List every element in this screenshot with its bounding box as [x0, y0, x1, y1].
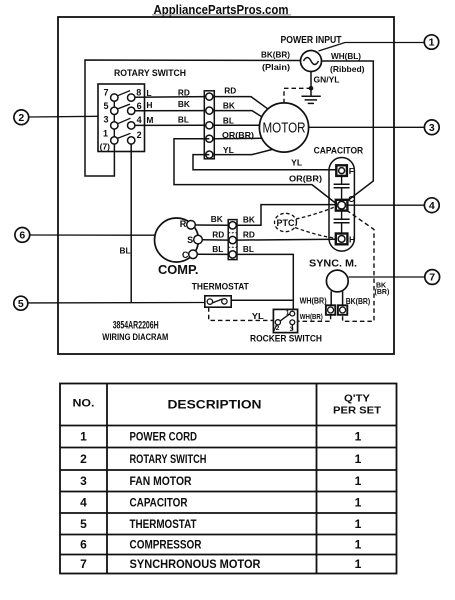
svg-text:POWER CORD: POWER CORD: [130, 430, 198, 444]
lever contacts: [116, 91, 131, 139]
callout 2 leader: [29, 115, 98, 118]
callout circle 6: [15, 228, 30, 243]
svg-text:ROTARY SWITCH: ROTARY SWITCH: [114, 68, 186, 79]
svg-text:CAPACITOR: CAPACITOR: [130, 495, 188, 509]
wire: WH(BL) from power source down right edge: [322, 61, 374, 204]
svg-text:BK(BR): BK(BR): [346, 297, 371, 306]
svg-text:1: 1: [286, 309, 290, 316]
svg-text:WIRING DIACRAM: WIRING DIACRAM: [102, 332, 168, 342]
callout 5 leader (wire to thermostat): [27, 302, 204, 304]
motor terminal strip: [204, 91, 214, 159]
svg-text:NO.: NO.: [73, 398, 95, 410]
wire row L/RD: [135, 96, 204, 99]
svg-text:POWER INPUT: POWER INPUT: [281, 35, 342, 46]
svg-text:SYNCHRONOUS MOTOR: SYNCHRONOUS MOTOR: [130, 557, 261, 571]
table header Q'TY PER SET: [333, 392, 382, 416]
svg-text:PTC: PTC: [277, 218, 296, 228]
svg-text:4: 4: [80, 495, 87, 509]
svg-text:6: 6: [19, 230, 25, 242]
rotary switch S1: [98, 84, 145, 152]
synchronous motor: [326, 270, 348, 315]
svg-text:BK(BR): BK(BR): [261, 50, 290, 60]
wire BK block to capacitor C: [237, 205, 336, 226]
svg-text:4: 4: [429, 200, 435, 212]
terminal R: [187, 221, 196, 230]
PTC thermistor (dashed): [275, 213, 297, 231]
svg-text:6: 6: [80, 538, 87, 552]
svg-text:1: 1: [355, 538, 362, 552]
sync terminal BK(BR): [338, 305, 347, 315]
svg-text:RD: RD: [243, 229, 255, 239]
svg-text:DESCRIPTION: DESCRIPTION: [168, 397, 262, 411]
svg-text:RD: RD: [224, 85, 236, 95]
wire thermostat to rocker junction: [231, 299, 293, 301]
svg-text:FAN MOTOR: FAN MOTOR: [130, 474, 192, 488]
svg-text:3854AR2206H: 3854AR2206H: [113, 319, 159, 331]
svg-text:C: C: [348, 194, 354, 204]
svg-text:YL: YL: [252, 312, 264, 321]
svg-text:H: H: [146, 100, 152, 110]
svg-text:1: 1: [429, 37, 435, 49]
terminal H: [336, 234, 348, 245]
svg-text:PER SET: PER SET: [333, 405, 382, 417]
svg-text:COMPRESSOR: COMPRESSOR: [130, 538, 202, 552]
svg-text:3: 3: [80, 474, 87, 488]
svg-text:OR(BR): OR(BR): [289, 173, 322, 183]
svg-text:YL: YL: [291, 157, 302, 167]
svg-text:GN/YL: GN/YL: [314, 75, 340, 85]
svg-text:ROTARY SWITCH: ROTARY SWITCH: [130, 452, 207, 466]
callout 1 leader: [319, 43, 425, 52]
dashed wire YL thermostat to rocker: [209, 307, 274, 320]
callout circle 7: [425, 270, 440, 285]
throw pins right column: [128, 94, 135, 144]
wire OR(BR) strip to motor: [214, 137, 262, 139]
svg-text:2: 2: [276, 325, 280, 332]
svg-text:MOTOR: MOTOR: [263, 121, 306, 137]
svg-text:2: 2: [18, 112, 24, 124]
wire RD block to capacitor H: [237, 238, 336, 241]
svg-text:BK: BK: [243, 215, 256, 225]
terminal S: [194, 235, 203, 244]
callout 6 leader: [30, 234, 156, 236]
wire BK strip to motor: [214, 111, 261, 117]
svg-text:1: 1: [355, 474, 362, 488]
thermostat switch: [205, 296, 231, 307]
terminal C: [189, 250, 198, 259]
wire YL strip to motor: [214, 150, 272, 155]
ground symbol: [302, 96, 321, 103]
svg-text:1: 1: [355, 452, 362, 466]
callout circle 2: [14, 110, 29, 125]
svg-text:WH(BL): WH(BL): [331, 51, 361, 61]
svg-text:Q'TY: Q'TY: [344, 392, 370, 404]
dashed wire: ground stem to motor frame: [284, 88, 311, 103]
svg-text:4: 4: [137, 115, 142, 125]
svg-text:8: 8: [136, 87, 141, 97]
svg-text:M: M: [146, 115, 153, 125]
svg-text:7: 7: [103, 87, 108, 97]
svg-text:1: 1: [355, 495, 362, 509]
svg-text:(Ribbed): (Ribbed): [330, 64, 365, 74]
label BK (BR) near dashed wire: [375, 282, 390, 296]
svg-text:5: 5: [80, 517, 87, 531]
svg-text:BK: BK: [223, 100, 236, 110]
svg-text:1: 1: [103, 129, 108, 139]
wire YL to capacitor F: [193, 155, 336, 170]
callout circle 1: [424, 35, 438, 49]
wire RD strip to motor: [214, 97, 267, 109]
plates F-C: [341, 176, 343, 184]
pin number labels: [100, 87, 142, 151]
svg-text:3: 3: [290, 326, 294, 333]
junction dot on ground stem: [309, 86, 314, 91]
wire BL strip to motor: [214, 124, 259, 126]
wire BK compressor R to block: [195, 224, 228, 226]
svg-text:(BR): (BR): [375, 289, 390, 296]
svg-text:F: F: [349, 166, 354, 176]
svg-text:7: 7: [80, 557, 87, 571]
dashed wire sync WH(BR) terminal to rocker switch: [298, 315, 331, 322]
svg-text:COMP.: COMP.: [158, 262, 199, 277]
callout circle 4: [424, 198, 439, 213]
svg-text:ROCKER SWITCH: ROCKER SWITCH: [250, 334, 322, 344]
dashed wire PTC to capacitor H: [295, 228, 336, 239]
power input AC source circle: [301, 51, 322, 72]
wire row M/BL: [135, 124, 204, 126]
callout circle 3: [424, 120, 439, 135]
svg-text:1: 1: [355, 430, 362, 444]
wire pin 2 BL down to thermostat row: [130, 144, 132, 303]
outer border frame of schematic: [58, 17, 394, 354]
svg-text:BL: BL: [243, 244, 254, 254]
parts table: [60, 384, 397, 574]
svg-text:R: R: [180, 219, 187, 229]
compressor terminal block: [228, 220, 237, 260]
compressor: [155, 218, 203, 262]
svg-text:BL: BL: [212, 244, 223, 254]
svg-text:YL: YL: [223, 145, 234, 155]
callout 7 leader: [349, 276, 425, 278]
callout 4 leader: [347, 204, 424, 206]
svg-text:BL: BL: [120, 246, 131, 256]
svg-text:BK: BK: [211, 214, 224, 224]
table rows: [80, 430, 362, 571]
plates C-H: [341, 211, 343, 220]
svg-text:5: 5: [18, 298, 24, 310]
svg-text:THERMOSTAT: THERMOSTAT: [192, 281, 249, 291]
svg-text:6: 6: [137, 101, 142, 111]
svg-text:WH(BR): WH(BR): [300, 314, 323, 321]
svg-text:BK: BK: [178, 99, 191, 109]
svg-text:2: 2: [80, 452, 87, 466]
svg-text:5: 5: [103, 101, 108, 111]
motor M1 (fan motor): [259, 103, 308, 152]
svg-text:3: 3: [429, 122, 435, 134]
svg-text:S: S: [187, 235, 193, 245]
svg-text:RD: RD: [212, 229, 224, 239]
callout circle 5: [14, 296, 28, 310]
terminal C: [336, 200, 348, 211]
watermark AppliancePartsPros.com: [152, 3, 291, 17]
svg-text:H: H: [349, 235, 355, 245]
svg-text:L: L: [146, 88, 151, 98]
pole pins left column: [111, 94, 118, 144]
wire: BK(BR) plain from power source to inner-left edge: [85, 60, 301, 176]
svg-text:(7): (7): [100, 142, 111, 152]
terminal F: [336, 165, 347, 176]
dashed wire capacitor C to sync BK(BR) terminal: [343, 210, 374, 321]
capacitor C1 body: [329, 158, 355, 252]
svg-text:(Plain): (Plain): [262, 62, 290, 72]
svg-text:2: 2: [137, 130, 142, 140]
svg-text:BL: BL: [178, 114, 189, 124]
wire BL compressor C to block: [197, 253, 228, 255]
wire OR(BR) to capacitor C: [174, 139, 336, 204]
svg-text:BL: BL: [223, 116, 234, 126]
wire RD compressor S to block: [202, 239, 228, 241]
rocker switch: [273, 309, 297, 333]
svg-text:1: 1: [355, 517, 362, 531]
svg-text:CAPACITOR: CAPACITOR: [314, 146, 364, 157]
svg-text:3: 3: [103, 114, 108, 124]
callout 3 leader: [309, 126, 425, 128]
svg-text:RD: RD: [178, 88, 190, 98]
svg-text:WH(BR): WH(BR): [300, 296, 327, 305]
svg-text:THERMOSTAT: THERMOSTAT: [130, 517, 198, 531]
svg-text:C: C: [182, 250, 189, 260]
sync terminal WH(BR): [326, 305, 335, 315]
svg-text:SYNC. M.: SYNC. M.: [309, 257, 357, 269]
wire: ground stem GN/YL: [310, 72, 312, 97]
dashed wire PTC to capacitor C: [296, 207, 336, 220]
wire row H/BK: [135, 110, 204, 112]
wire BL block to rocker switch: [237, 254, 293, 311]
svg-text:1: 1: [355, 557, 362, 571]
svg-text:7: 7: [429, 272, 435, 284]
svg-text:1: 1: [80, 430, 87, 444]
